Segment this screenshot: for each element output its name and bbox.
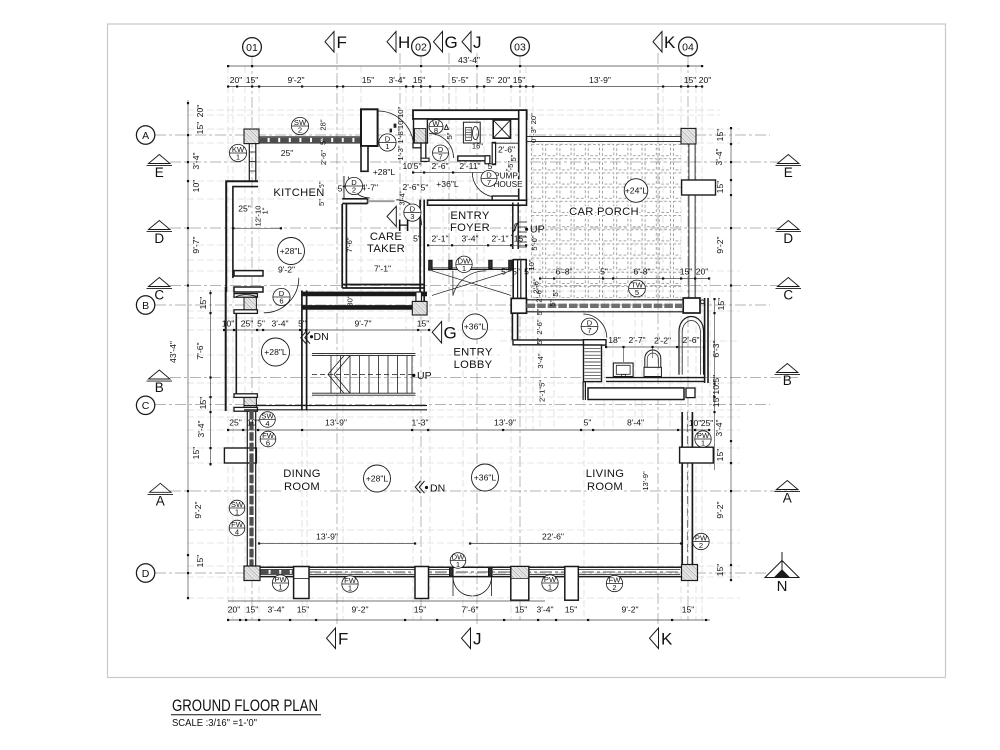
- svg-text:15": 15": [362, 75, 375, 85]
- svg-text:10": 10": [191, 180, 201, 193]
- svg-text:15": 15": [191, 447, 201, 460]
- svg-text:GROUND FLOOR PLAN: GROUND FLOOR PLAN: [172, 696, 318, 715]
- svg-text:2: 2: [699, 541, 703, 550]
- svg-text:10'5": 10'5": [402, 161, 421, 171]
- svg-text:+36"L: +36"L: [436, 179, 459, 189]
- svg-text:1: 1: [456, 560, 460, 569]
- svg-text:3'-4": 3'-4": [271, 319, 288, 329]
- svg-text:9'-7": 9'-7": [354, 319, 371, 329]
- svg-text:ROOM: ROOM: [587, 481, 623, 493]
- svg-text:0"-3" 20": 0"-3" 20": [529, 113, 538, 143]
- svg-text:5": 5": [551, 289, 560, 296]
- svg-text:7'-6": 7'-6": [461, 605, 478, 615]
- svg-text:2'-11": 2'-11": [459, 161, 480, 171]
- svg-text:ROOM: ROOM: [284, 481, 320, 493]
- svg-text:E: E: [784, 165, 793, 180]
- svg-text:D: D: [154, 231, 164, 246]
- svg-text:HOUSE: HOUSE: [493, 180, 523, 189]
- svg-text:15"10.5": 15"10.5": [711, 375, 721, 407]
- svg-text:5": 5": [338, 184, 346, 194]
- svg-text:1: 1: [278, 583, 282, 592]
- svg-text:10": 10": [527, 259, 536, 270]
- svg-text:15": 15": [682, 605, 695, 615]
- svg-text:13'-9": 13'-9": [494, 418, 516, 428]
- svg-text:1'-3": 1'-3": [396, 145, 405, 160]
- svg-text:10": 10": [222, 319, 235, 329]
- svg-text:+28"L: +28"L: [373, 167, 396, 177]
- svg-text:+36"L: +36"L: [464, 322, 487, 332]
- svg-text:KITCHEN: KITCHEN: [273, 187, 324, 199]
- svg-text:6: 6: [279, 297, 283, 306]
- svg-text:9'-2": 9'-2": [715, 236, 725, 253]
- svg-text:N: N: [777, 578, 788, 595]
- svg-text:D: D: [783, 231, 793, 246]
- svg-text:E: E: [155, 165, 164, 180]
- svg-text:5": 5": [319, 138, 328, 145]
- svg-text:15": 15": [513, 75, 526, 85]
- svg-text:28": 28": [319, 119, 328, 130]
- svg-text:4: 4: [235, 528, 239, 537]
- svg-text:13'-9": 13'-9": [641, 471, 650, 491]
- svg-text:5": 5": [535, 308, 544, 315]
- svg-text:7'-1": 7'-1": [374, 264, 391, 274]
- svg-text:2'-6": 2'-6": [498, 145, 515, 155]
- svg-text:F: F: [337, 33, 347, 52]
- svg-text:G: G: [444, 324, 457, 343]
- svg-text:16": 16": [472, 142, 483, 151]
- svg-text:43'-4": 43'-4": [458, 55, 480, 65]
- svg-text:15": 15": [715, 129, 725, 142]
- svg-text:10"10": 10"10": [396, 107, 405, 130]
- svg-text:TAKER: TAKER: [367, 243, 405, 255]
- svg-text:3'-4": 3'-4": [714, 148, 724, 165]
- svg-text:2'-6": 2'-6": [535, 287, 544, 302]
- svg-text:5": 5": [257, 319, 265, 329]
- svg-text:K: K: [664, 33, 676, 52]
- svg-text:15": 15": [246, 605, 259, 615]
- svg-text:03: 03: [514, 41, 526, 53]
- svg-text:7'-6": 7'-6": [195, 342, 205, 359]
- svg-text:J: J: [473, 630, 482, 649]
- svg-text:2'-7": 2'-7": [628, 335, 645, 345]
- svg-text:5": 5": [445, 132, 454, 139]
- svg-text:5": 5": [535, 337, 544, 344]
- svg-text:15": 15": [198, 397, 208, 410]
- svg-text:30": 30": [346, 295, 355, 306]
- svg-text:15": 15": [417, 319, 430, 329]
- svg-text:6'-8": 6'-8": [555, 267, 572, 277]
- svg-text:13'-9": 13'-9": [325, 418, 347, 428]
- svg-text:15": 15": [684, 75, 697, 85]
- svg-text:6: 6: [266, 439, 270, 448]
- svg-text:9'-2": 9'-2": [278, 265, 295, 275]
- svg-text:1": 1": [261, 207, 270, 214]
- svg-text:8: 8: [434, 126, 438, 135]
- svg-text:13'-9": 13'-9": [316, 532, 338, 542]
- svg-text:1'-8": 1'-8": [396, 128, 405, 143]
- svg-text:5": 5": [486, 75, 494, 85]
- svg-text:5": 5": [501, 267, 509, 277]
- svg-text:+28"L: +28"L: [264, 347, 287, 357]
- svg-text:15": 15": [195, 122, 205, 135]
- svg-text:2: 2: [298, 126, 302, 135]
- svg-text:7'-6": 7'-6": [345, 237, 354, 252]
- svg-text:6'-8": 6'-8": [633, 267, 650, 277]
- svg-text:2'-6": 2'-6": [682, 335, 699, 345]
- svg-text:A: A: [142, 130, 149, 142]
- svg-text:5": 5": [509, 154, 518, 161]
- svg-text:1: 1: [348, 584, 352, 593]
- svg-text:25": 25": [241, 319, 254, 329]
- svg-text:8'-4": 8'-4": [627, 418, 644, 428]
- svg-text:15": 15": [195, 555, 205, 568]
- svg-text:2'-1": 2'-1": [431, 234, 448, 244]
- svg-text:1: 1: [385, 142, 389, 151]
- svg-text:02: 02: [415, 41, 427, 53]
- svg-text:+36"L: +36"L: [474, 473, 497, 483]
- svg-text:+24"L: +24"L: [625, 186, 648, 196]
- svg-text:2'-6": 2'-6": [319, 150, 328, 165]
- svg-text:9'-2": 9'-2": [715, 501, 725, 518]
- svg-text:2: 2: [612, 583, 616, 592]
- svg-text:1: 1: [235, 508, 239, 517]
- svg-text:22'-6": 22'-6": [542, 532, 564, 542]
- svg-text:1: 1: [462, 264, 466, 273]
- svg-text:15": 15": [514, 234, 527, 244]
- svg-text:3'-4": 3'-4": [536, 605, 553, 615]
- svg-text:H: H: [398, 216, 410, 235]
- svg-text:4: 4: [265, 419, 269, 428]
- svg-text:D: D: [142, 568, 150, 580]
- svg-text:3: 3: [410, 212, 414, 221]
- svg-text:4'-7": 4'-7": [361, 183, 378, 193]
- svg-text:ENTRY: ENTRY: [453, 347, 492, 359]
- svg-text:+28"L: +28"L: [280, 246, 303, 256]
- svg-text:2'-1"5": 2'-1"5": [538, 380, 547, 402]
- svg-text:DINNG: DINNG: [283, 468, 321, 480]
- svg-text:15": 15": [715, 564, 725, 577]
- svg-text:LOBBY: LOBBY: [454, 359, 493, 371]
- svg-text:C: C: [154, 288, 164, 303]
- svg-text:15": 15": [565, 605, 578, 615]
- svg-text:5'-0": 5'-0": [530, 235, 539, 250]
- svg-text:G: G: [445, 33, 458, 52]
- svg-text:3'-4": 3'-4": [536, 353, 545, 368]
- svg-text:H: H: [398, 33, 410, 52]
- svg-text:2'-2": 2'-2": [654, 336, 671, 346]
- svg-text:2'-6": 2'-6": [535, 319, 544, 334]
- svg-text:15": 15": [515, 605, 528, 615]
- svg-text:5: 5: [635, 288, 639, 297]
- svg-text:3'-4": 3'-4": [388, 75, 405, 85]
- svg-text:1: 1: [701, 439, 705, 448]
- svg-text:2'-1": 2'-1": [491, 234, 508, 244]
- svg-text:3'-4": 3'-4": [267, 605, 284, 615]
- svg-text:FOYER: FOYER: [450, 222, 490, 234]
- svg-text:9'-2": 9'-2": [621, 605, 638, 615]
- svg-text:A: A: [783, 491, 792, 506]
- svg-text:DN: DN: [314, 331, 329, 343]
- svg-text:10": 10": [247, 418, 260, 428]
- svg-text:1: 1: [548, 583, 552, 592]
- svg-text:3'-4": 3'-4": [461, 234, 478, 244]
- svg-text:20": 20": [696, 267, 709, 277]
- svg-text:15": 15": [716, 298, 726, 311]
- svg-text:B: B: [142, 300, 149, 312]
- svg-text:15": 15": [246, 75, 259, 85]
- svg-text:5'-5": 5'-5": [451, 75, 468, 85]
- svg-text:15": 15": [414, 605, 427, 615]
- svg-text:01: 01: [246, 42, 258, 54]
- svg-text:3'-4": 3'-4": [714, 419, 724, 436]
- svg-text:20": 20": [228, 605, 241, 615]
- svg-text:5": 5": [298, 319, 306, 329]
- svg-text:15": 15": [715, 181, 725, 194]
- svg-text:15": 15": [297, 605, 310, 615]
- svg-text:5": 5": [548, 299, 557, 306]
- svg-text:25": 25": [281, 148, 294, 158]
- svg-text:25": 25": [229, 418, 242, 428]
- svg-text:1'-3": 1'-3": [411, 418, 428, 428]
- svg-text:25": 25": [238, 204, 251, 214]
- svg-text:9'-7": 9'-7": [191, 236, 201, 253]
- svg-text:J: J: [473, 33, 482, 52]
- svg-text:5": 5": [317, 199, 326, 206]
- svg-text:C: C: [142, 400, 150, 412]
- svg-text:DN: DN: [430, 483, 445, 495]
- svg-text:UP: UP: [417, 370, 432, 382]
- svg-text:CAR PORCH: CAR PORCH: [569, 206, 639, 218]
- svg-text:43'-4": 43'-4": [168, 341, 178, 363]
- svg-text:5": 5": [512, 267, 520, 277]
- svg-text:UP: UP: [530, 224, 545, 236]
- svg-text:15": 15": [198, 297, 208, 310]
- svg-text:F: F: [338, 630, 348, 649]
- svg-text:04: 04: [682, 41, 694, 53]
- svg-text:15": 15": [680, 267, 693, 277]
- svg-text:18": 18": [608, 335, 621, 345]
- svg-text:3'-4": 3'-4": [398, 190, 407, 205]
- svg-text:A: A: [156, 494, 165, 509]
- svg-text:13'-9": 13'-9": [589, 75, 611, 85]
- svg-text:9'-2": 9'-2": [351, 605, 368, 615]
- svg-text:10": 10": [689, 418, 702, 428]
- svg-text:6'-3": 6'-3": [711, 340, 721, 357]
- svg-text:K: K: [661, 630, 673, 649]
- svg-text:20": 20": [498, 75, 511, 85]
- svg-text:7: 7: [587, 326, 591, 335]
- svg-text:7: 7: [438, 153, 442, 162]
- svg-text:ENTRY: ENTRY: [450, 210, 489, 222]
- svg-text:2'-6": 2'-6": [431, 161, 448, 171]
- svg-text:2: 2: [352, 186, 356, 195]
- svg-text:5": 5": [600, 267, 608, 277]
- svg-text:3'-4": 3'-4": [191, 152, 201, 169]
- svg-text:20": 20": [230, 75, 243, 85]
- svg-text:LIVING: LIVING: [586, 468, 624, 480]
- svg-text:3'-4": 3'-4": [196, 420, 206, 437]
- svg-text:9'-2": 9'-2": [193, 501, 203, 518]
- svg-text:+28"L: +28"L: [366, 474, 389, 484]
- svg-text:5": 5": [584, 418, 592, 428]
- svg-text:1: 1: [236, 153, 240, 162]
- svg-text:5": 5": [421, 183, 429, 193]
- svg-text:15": 15": [413, 75, 426, 85]
- svg-text:20": 20": [195, 105, 205, 118]
- svg-text:7: 7: [487, 178, 491, 187]
- svg-text:9'-2": 9'-2": [287, 75, 304, 85]
- svg-text:C: C: [783, 288, 793, 303]
- svg-text:20": 20": [699, 75, 712, 85]
- svg-text:15": 15": [715, 449, 725, 462]
- svg-text:B: B: [155, 380, 164, 395]
- svg-text:B: B: [783, 373, 792, 388]
- svg-text:25": 25": [701, 418, 714, 428]
- svg-text:SCALE :3/16" =1-'0": SCALE :3/16" =1-'0": [172, 718, 257, 729]
